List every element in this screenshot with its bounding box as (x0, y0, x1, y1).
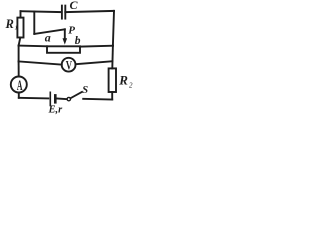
svg-text:E,r: E,r (48, 105, 64, 116)
wire R1 bottom lead down to rheostat row (19, 38, 21, 46)
wire R1 top lead (20, 11, 22, 17)
wire switch to right corner (83, 98, 112, 101)
wire top left horizontal (corner to capacitor) (21, 10, 62, 13)
wire left rail (voltmeter row to ammeter) (18, 61, 20, 76)
wire capacitor tap down from top wire (33, 12, 35, 34)
switch S contact circle (67, 97, 70, 100)
wire rheostat row left (19, 45, 47, 48)
svg-text:V: V (66, 59, 72, 73)
capacitor C (62, 6, 65, 19)
svg-text:b: b (75, 35, 81, 47)
wire left rail (rheostat row to voltmeter row) (18, 46, 20, 62)
svg-text:R: R (5, 17, 14, 31)
svg-text:2: 2 (129, 81, 133, 89)
rheostat body (47, 46, 80, 53)
wire slider bracket to P (34, 29, 65, 34)
resistor R1 (17, 18, 23, 38)
voltmeter V (62, 58, 76, 72)
svg-text:A: A (17, 76, 23, 94)
wire voltmeter row right (76, 61, 113, 64)
wire bottom left (to battery) (19, 97, 49, 100)
wire R2 bottom lead (111, 92, 113, 100)
wire battery to switch (57, 98, 67, 101)
wire right rail middle (111, 46, 114, 69)
svg-text:1: 1 (15, 24, 18, 31)
battery E,r long plate (49, 92, 51, 105)
resistor R2 (109, 68, 116, 92)
wire ammeter bottom lead (18, 93, 20, 98)
svg-text:S: S (82, 85, 88, 96)
ammeter A (11, 77, 27, 93)
battery E,r short plate (54, 95, 57, 102)
wire right rail top (113, 11, 114, 46)
wire rheostat row right (80, 45, 113, 48)
switch S lever (71, 92, 82, 98)
slider arrowhead (63, 38, 68, 44)
svg-text:C: C (70, 0, 79, 12)
wire voltmeter row left (19, 61, 62, 64)
svg-text:R: R (118, 73, 128, 88)
slider arrow P shaft (64, 29, 66, 38)
svg-text:a: a (45, 30, 51, 44)
wire top right horizontal (capacitor to right corner) (65, 11, 114, 12)
